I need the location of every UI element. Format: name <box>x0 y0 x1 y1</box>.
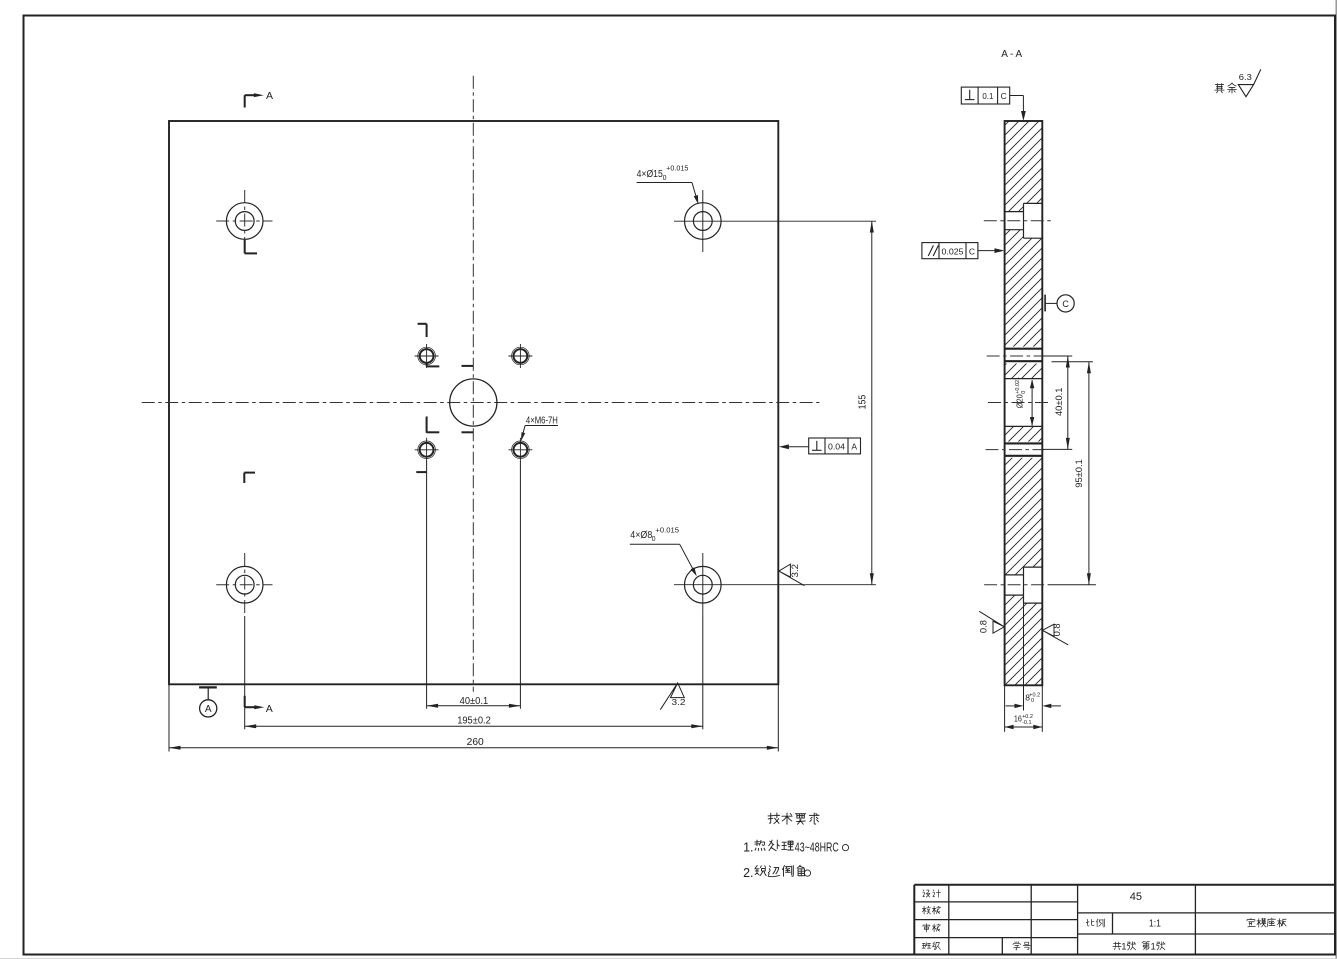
svg-text:3.2: 3.2 <box>672 697 686 707</box>
svg-text:+0.015: +0.015 <box>666 166 688 173</box>
svg-text:1.: 1. <box>743 841 753 855</box>
svg-text:4×Ø8: 4×Ø8 <box>630 530 652 541</box>
svg-text:260: 260 <box>467 737 485 748</box>
svg-text:0: 0 <box>1031 698 1034 704</box>
svg-text:0.025: 0.025 <box>942 246 964 256</box>
svg-text:A: A <box>205 704 212 715</box>
svg-text:0.8: 0.8 <box>1052 623 1062 636</box>
svg-text:+0.2: +0.2 <box>1022 714 1033 720</box>
svg-text:6.3: 6.3 <box>1239 72 1252 82</box>
svg-text:43~48HRC: 43~48HRC <box>795 840 839 855</box>
svg-text:1: 1 <box>1121 941 1126 952</box>
svg-text:0.8: 0.8 <box>978 620 988 633</box>
svg-text:-0.1: -0.1 <box>1022 720 1031 726</box>
svg-text:0: 0 <box>652 536 656 543</box>
svg-text:Ø20: Ø20 <box>1015 394 1025 408</box>
svg-text:A: A <box>266 703 273 715</box>
svg-text:40±0.1: 40±0.1 <box>460 696 489 707</box>
svg-text:16: 16 <box>1014 714 1022 724</box>
svg-text:40±0.1: 40±0.1 <box>1054 388 1064 417</box>
svg-text:C: C <box>1062 299 1069 309</box>
svg-text:0: 0 <box>663 175 667 182</box>
svg-text:0.04: 0.04 <box>828 442 845 452</box>
svg-text:4×M6-7H: 4×M6-7H <box>526 415 558 426</box>
svg-text:0: 0 <box>1021 391 1027 394</box>
svg-text:A: A <box>851 442 857 452</box>
svg-text:2.: 2. <box>743 866 753 880</box>
svg-text:A - A: A - A <box>1001 49 1022 60</box>
svg-text:95±0.1: 95±0.1 <box>1074 459 1084 488</box>
svg-text:4×Ø15: 4×Ø15 <box>637 169 664 180</box>
svg-text:3.2: 3.2 <box>790 564 800 578</box>
svg-text:C: C <box>1001 91 1007 101</box>
svg-text:+0.015: +0.015 <box>655 527 679 534</box>
svg-text:C: C <box>969 246 975 256</box>
svg-text:1: 1 <box>1151 941 1156 952</box>
svg-text:0.1: 0.1 <box>982 91 993 101</box>
svg-text:A: A <box>266 90 273 102</box>
svg-text:155: 155 <box>857 394 868 409</box>
svg-text:195±0.2: 195±0.2 <box>457 716 491 727</box>
svg-text:1:1: 1:1 <box>1149 918 1161 929</box>
svg-text:45: 45 <box>1130 891 1142 903</box>
